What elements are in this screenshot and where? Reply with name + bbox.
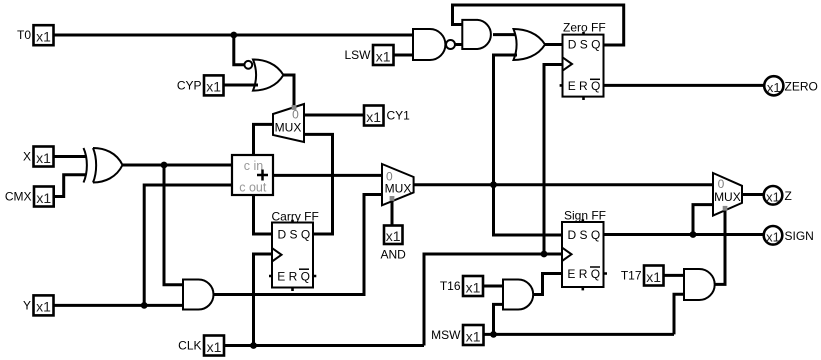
svg-text:CYP: CYP (177, 78, 202, 92)
node junction Y (141, 302, 148, 309)
wire AND U3 output to MUX M2 input 1 (214, 195, 383, 295)
flip-flop Carry FF stub pins (269, 220, 316, 291)
svg-text:MUX: MUX (714, 190, 741, 204)
svg-text:SIGN: SIGN (785, 229, 814, 243)
wire MUX M2 select to pin AND (391, 201, 394, 226)
wire MUX M1 output to adder A1 carry-in top pin (254, 124, 274, 154)
node junction T0 (230, 32, 237, 39)
xor gate U1 (84, 148, 123, 183)
svg-text:MSW: MSW (431, 328, 461, 342)
mux M1 body (west facing) (273, 104, 304, 142)
wire NOR U2 output to MUX M1 select (283, 75, 294, 107)
wire MUX M2 output to MUX M3 input 0 (414, 183, 713, 186)
pin CMX box (34, 187, 54, 207)
wire CLK up to Sign FF clock (424, 254, 562, 346)
wire T17 to AND U8 top input (664, 274, 685, 277)
svg-text:x1: x1 (366, 109, 381, 125)
svg-text:Y: Y (23, 298, 31, 312)
wire MSW up to AND U8 bottom input (674, 294, 684, 334)
svg-text:D S Q: D S Q (568, 228, 601, 242)
and gate U3 (183, 280, 214, 310)
svg-text:MUX: MUX (385, 182, 412, 196)
svg-text:x1: x1 (36, 299, 51, 315)
wire Zero FF Q feedback loop to AND U6 top input (453, 5, 624, 45)
wire MSW branch up to AND U7 bottom input (494, 304, 504, 334)
flip-flop Sign FF box (562, 222, 604, 287)
pin T17 box (644, 266, 664, 286)
flip-flop Zero FF clock triangle (563, 57, 573, 70)
svg-text:x1: x1 (36, 29, 51, 45)
pin MSW box (463, 325, 484, 345)
wire CLK up to Zero FF clock (544, 65, 563, 255)
port ZERO circle (764, 76, 783, 95)
flip-flop Sign FF stub pins (583, 219, 607, 290)
adder A1 plus symbol (257, 170, 268, 181)
wire CLK horizontal run (224, 344, 424, 347)
or gate U5 (514, 29, 546, 60)
pin CLK box (204, 336, 224, 356)
svg-text:T17: T17 (621, 269, 642, 283)
pin AND box (384, 226, 403, 245)
svg-text:x1: x1 (206, 79, 221, 95)
svg-text:x1: x1 (466, 279, 481, 295)
wire adder A1 carry-out to Carry FF D input (254, 195, 273, 234)
wire AND U7 output to Sign FF E input (534, 274, 563, 295)
flip-flop Zero FF box (563, 35, 604, 97)
wire Sign FF Q to port SIGN (604, 233, 765, 236)
svg-text:c in: c in (244, 159, 264, 173)
wire T0 to NAND U4 top input (54, 34, 413, 37)
svg-text:E R Q: E R Q (567, 267, 600, 281)
svg-text:x1: x1 (36, 150, 51, 166)
svg-text:x1: x1 (36, 190, 51, 206)
svg-text:E R Q: E R Q (568, 79, 601, 93)
svg-text:x1: x1 (207, 339, 222, 355)
pin Y box (34, 295, 54, 315)
node junction MSW (490, 331, 497, 338)
svg-text:Sign FF: Sign FF (564, 209, 606, 223)
svg-text:D S Q: D S Q (568, 38, 601, 52)
mux M2 body (382, 164, 414, 205)
node junction sum (490, 181, 497, 188)
svg-text:T16: T16 (440, 279, 461, 293)
wire Y branch up to adder A1 input b (144, 185, 232, 305)
wire OR U5 output to Zero FF D input (545, 43, 563, 46)
flip-flop Carry FF clock triangle (272, 248, 282, 261)
svg-text:D S Q: D S Q (278, 228, 311, 242)
wire AND U8 output to MUX M3 select (714, 211, 725, 285)
adder A1 body (232, 155, 273, 195)
svg-text:x1: x1 (767, 80, 781, 95)
svg-text:x1: x1 (646, 269, 661, 285)
wire Y to AND U3 bottom input (54, 304, 183, 307)
pin T16 box (463, 276, 483, 296)
mux M3 body (713, 173, 742, 216)
node junction CLK (250, 342, 257, 349)
mux M2 select square (390, 196, 395, 201)
wire adder A1 sum output to MUX M2 input 0 (273, 174, 382, 177)
svg-text:x1: x1 (766, 189, 780, 204)
flip-flop Sign FF clock triangle (562, 248, 572, 261)
svg-text:Z: Z (785, 189, 792, 203)
svg-text:T0: T0 (17, 28, 31, 42)
wire Zero FF Qbar to port ZERO (604, 84, 765, 87)
wire T0 branch down to NOR U2 bubble (234, 35, 245, 65)
pin CYP box (204, 75, 224, 95)
wire XOR U1 output to adder A1 input a (123, 164, 233, 167)
wire node sum down to Sign FF D input (494, 185, 563, 235)
wire NAND U4 bubble to AND U6 lower input (456, 43, 463, 46)
svg-text:CLK: CLK (178, 339, 201, 353)
svg-text:x1: x1 (376, 48, 391, 64)
flip-flop Carry FF box (272, 223, 313, 288)
wire CMX to XOR U1 bottom input (54, 175, 86, 197)
wire X to XOR U1 top input (54, 155, 86, 158)
wire AND U6 output to OR U5 top input (493, 33, 516, 36)
wire node XOR-out branch down to AND U3 top input (164, 165, 183, 285)
svg-text:LSW: LSW (344, 48, 371, 62)
svg-text:ZERO: ZERO (785, 79, 818, 93)
pin X box (34, 147, 54, 167)
wire CYP to NOR U2 lower input (224, 84, 259, 87)
svg-text:X: X (23, 150, 31, 164)
svg-text:CY1: CY1 (387, 109, 411, 123)
nand gate U4 (413, 29, 455, 60)
pin LSW box (373, 45, 394, 65)
svg-text:E R Q: E R Q (277, 269, 310, 283)
and gate U6 (462, 20, 491, 49)
wire MSW horizontal run (484, 333, 675, 336)
pin CY1 box (364, 106, 384, 126)
svg-text:x1: x1 (766, 229, 780, 244)
svg-text:MUX: MUX (275, 121, 302, 135)
wire CLK branch up to Carry FF clock (254, 254, 273, 346)
node junction CLK right (541, 251, 548, 258)
wire MUX M3 output to port Z (742, 193, 764, 196)
and gate U8 (684, 269, 715, 300)
node junction Sign Q (690, 231, 697, 238)
pin T0 box (34, 25, 54, 45)
svg-text:AND: AND (381, 248, 407, 262)
flip-flop Zero FF stub pins (560, 32, 584, 100)
wire node sum to OR U5 lower input (494, 55, 518, 185)
wire T16 to AND U7 top input (483, 285, 503, 288)
mux M3 select square (723, 206, 728, 211)
svg-text:Carry FF: Carry FF (272, 210, 319, 224)
wire LSW to NAND U4 bottom input (394, 54, 414, 57)
wire Sign FF Q branch up to MUX M3 input 1 (693, 205, 713, 235)
mux M1 select square (292, 105, 297, 110)
port Z circle (764, 186, 783, 205)
svg-text:x1: x1 (466, 328, 481, 344)
wire MUX M1 input 0 to pin CY1 (304, 114, 364, 117)
node junction XOR output (161, 162, 168, 169)
nor gate U2 (OR with negated top input) (244, 60, 283, 91)
wire Carry FF Q to MUX M1 input 1 (304, 134, 333, 234)
svg-text:0: 0 (718, 177, 725, 191)
and gate U7 (503, 280, 533, 310)
svg-text:c out: c out (239, 181, 267, 195)
port SIGN circle (764, 226, 783, 245)
svg-text:x1: x1 (386, 228, 401, 244)
svg-text:CMX: CMX (5, 190, 32, 204)
